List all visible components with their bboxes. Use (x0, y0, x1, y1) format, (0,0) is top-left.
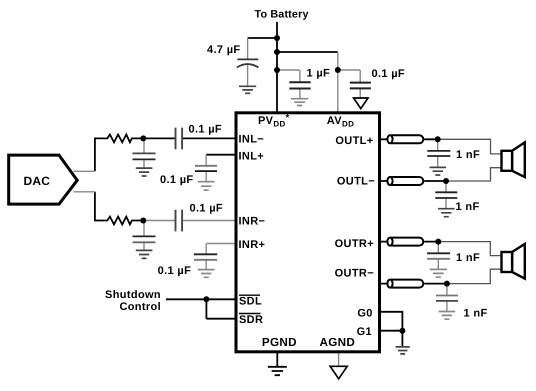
svg-text:INL+: INL+ (239, 151, 265, 163)
svg-text:OUTR−: OUTR− (335, 267, 374, 279)
svg-text:PGND: PGND (262, 336, 297, 349)
svg-text:DAC: DAC (24, 174, 51, 188)
svg-text:AGND: AGND (319, 336, 355, 349)
svg-text:0.1 µF: 0.1 µF (160, 174, 194, 186)
svg-text:INL−: INL− (239, 133, 265, 145)
svg-text:Shutdown: Shutdown (105, 289, 161, 301)
svg-text:INR−: INR− (239, 216, 266, 228)
svg-text:G0: G0 (357, 307, 372, 319)
svg-text:0.1 µF: 0.1 µF (158, 265, 192, 277)
svg-text:0.1 µF: 0.1 µF (189, 123, 223, 135)
svg-text:0.1 µF: 0.1 µF (372, 68, 406, 80)
svg-text:Control: Control (119, 301, 161, 313)
svg-text:OUTR+: OUTR+ (335, 238, 374, 250)
svg-text:1 nF: 1 nF (456, 252, 480, 264)
svg-text:OUTL+: OUTL+ (335, 135, 373, 147)
svg-text:4.7 µF: 4.7 µF (207, 44, 241, 56)
svg-text:To Battery: To Battery (255, 9, 309, 21)
svg-text:INR+: INR+ (239, 239, 266, 251)
svg-text:G1: G1 (357, 326, 372, 338)
svg-text:1 nF: 1 nF (464, 307, 488, 319)
svg-text:SDL: SDL (239, 295, 262, 307)
svg-text:1 nF: 1 nF (456, 149, 480, 161)
svg-text:1 µF: 1 µF (307, 67, 331, 79)
svg-text:1 nF: 1 nF (456, 201, 480, 213)
svg-text:SDR: SDR (239, 314, 263, 326)
svg-text:0.1 µF: 0.1 µF (190, 202, 224, 214)
svg-text:OUTL−: OUTL− (337, 176, 375, 188)
